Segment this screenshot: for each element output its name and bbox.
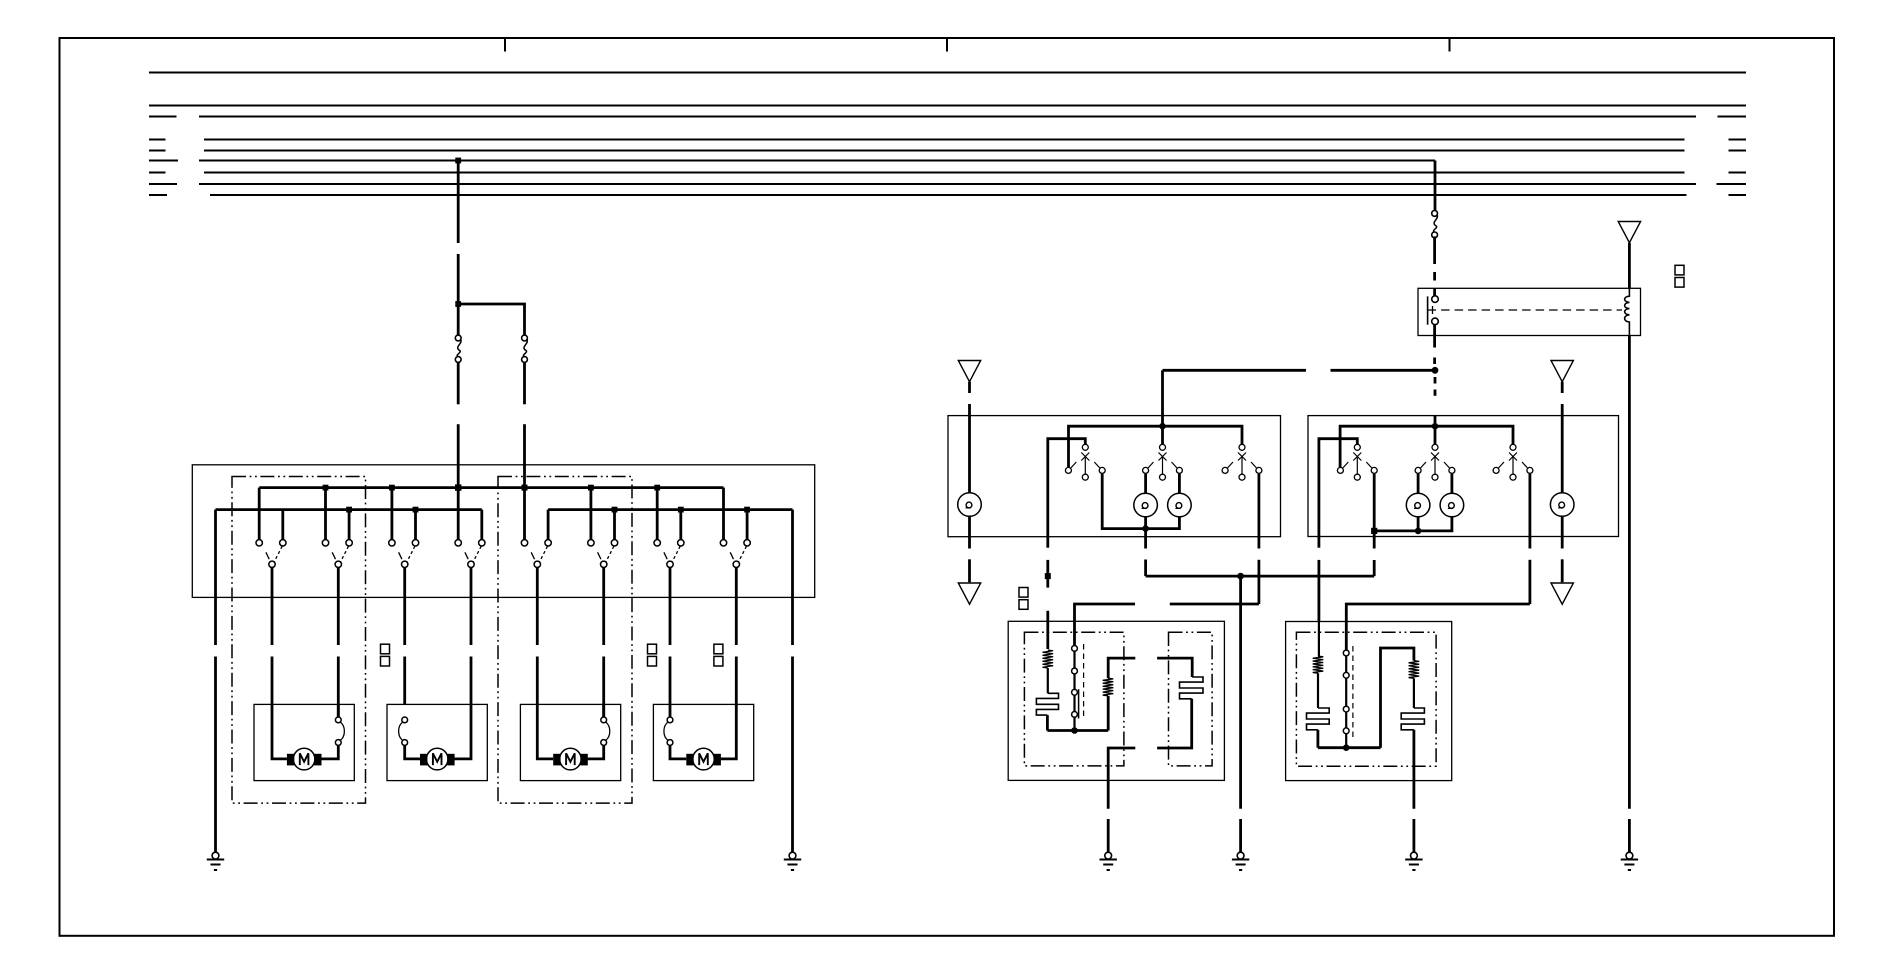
page tick mark x=947 (946, 38, 948, 52)
wire lower bus right end drop (791, 510, 794, 598)
actuator1 dashed box B (1169, 632, 1213, 766)
wire lock feed dashes (1434, 377, 1437, 423)
wire fuse F2 to switch bus (523, 362, 526, 487)
wire master switch upper bus (259, 486, 723, 489)
wire far-right ground run upper (791, 597, 794, 645)
wire motor 1 left lead (272, 704, 287, 759)
wire A2 to relay box (1628, 243, 1631, 289)
switch SR2 (1415, 444, 1455, 480)
wire ground drop x1240 (1239, 576, 1242, 852)
wire switch 6 to window motor (602, 568, 605, 646)
motor M3 (553, 748, 588, 770)
relay contact bar (1427, 296, 1429, 324)
wire switch 5 to window motor (536, 568, 539, 646)
wire bulb B5 top (1451, 474, 1454, 493)
wire switch 4 to window motor (470, 568, 473, 646)
window motor box 4 (653, 704, 753, 780)
wire drop to switch 2 right contact (348, 510, 351, 540)
node boxL rail junction (1142, 525, 1149, 532)
connector C5 squares (1675, 265, 1684, 287)
wire bus line 4 y=139.5 (149, 139, 1746, 141)
connector C1 squares (381, 644, 390, 666)
master switch assembly box (192, 465, 814, 598)
switch S1 rocker contacts (256, 540, 286, 568)
wire motor feed lower column 5 (536, 657, 539, 705)
wire bus line 8 y=184.0 (149, 183, 1746, 185)
node fuse feed junction (455, 301, 461, 307)
wire boxR sw3 output upper (1529, 474, 1532, 537)
node boxR top bus junction (1432, 423, 1439, 430)
door lock actuator box 2 (1286, 622, 1452, 781)
actuator1 pin dashed line (1083, 644, 1085, 719)
wire boxL rail exit lower (1144, 537, 1147, 576)
connector C3 squares (714, 644, 723, 666)
node boxR rail junction (1415, 528, 1422, 535)
wire drop to switch 6 left contact (590, 488, 593, 540)
switch S2 rocker contacts (322, 540, 352, 568)
wire bulb B6 column (1561, 416, 1564, 549)
node actuator2 rail junction (1343, 744, 1350, 751)
connector in-line motor 1 (335, 717, 344, 745)
ground G x=1413.9 (1405, 852, 1422, 870)
arrow feed A3 (1551, 361, 1573, 382)
bulb B1 (1134, 493, 1158, 517)
node L-feeder inline connector (1045, 573, 1051, 579)
wire bulb B3 column (968, 416, 971, 537)
wire drop to switch 2 left contact (324, 488, 327, 540)
wire bus line 3 y=116.5 (149, 116, 1746, 118)
wire drop to switch 1 right contact (281, 510, 284, 540)
resistor R2 (1103, 678, 1114, 696)
wire switch 3 to window motor (403, 568, 406, 646)
connector in-line motor 4 (664, 717, 673, 745)
wire motor 2 left lead (405, 745, 420, 759)
node lock feed junction (1432, 367, 1439, 374)
wire fuse F1 lead (457, 304, 460, 335)
arrow feed A2 (relay) (1618, 222, 1640, 243)
wire lock feed left drop (1161, 370, 1164, 426)
wire drop to switch 7 left contact (656, 488, 659, 540)
wire boxL top bus (1069, 426, 1243, 467)
node lower bus junction at switch 8 (744, 507, 750, 513)
resistor R3 (1313, 656, 1324, 673)
wire actuator2 ground lower (1413, 819, 1416, 852)
wire drop to switch 1 left contact (258, 488, 261, 540)
wire master switch lower bus right (548, 508, 792, 511)
wire bus line 5 y=150.5 (149, 150, 1746, 152)
wire boxL sw3 output lower (1170, 537, 1259, 604)
motor M2 (420, 748, 455, 770)
node boxR rail junction sq (1371, 528, 1377, 534)
node upper bus junction 3 (455, 485, 461, 491)
wire comb W2 top lead (1157, 658, 1192, 677)
lock switch assembly box L (948, 416, 1281, 537)
node upper bus junction 2 (389, 485, 395, 491)
wire boxR L-feeder (1319, 439, 1357, 537)
connector C2 squares (648, 644, 657, 666)
wire drop to switch 4 right contact (480, 510, 483, 540)
wire motor 4 right lead (721, 704, 737, 759)
ground G x=1108.2 (1100, 852, 1117, 870)
wire bulb B1 bottom (1144, 517, 1147, 529)
node boxL top bus junction (1159, 423, 1166, 430)
bulb B3 (958, 493, 982, 517)
wire motor feed lower column 6 (602, 657, 605, 718)
connector C4 squares (1019, 588, 1028, 610)
wire motor feed lower column 7 (669, 657, 672, 718)
dashed boundary box mid (rear left door) (498, 477, 632, 804)
wire B3 to arrow A4 (968, 537, 971, 583)
wire boxR bulb rail (1374, 517, 1452, 531)
switch SL3 (1222, 444, 1262, 480)
wire R4 to comb (1413, 678, 1415, 708)
window motor box 2 (387, 704, 487, 780)
ground G x=792.5 (784, 852, 801, 870)
node upper bus junction 4 (522, 485, 528, 491)
wire R2 bottom lead (1107, 696, 1110, 731)
wire drop to switch 5 left contact (523, 488, 526, 540)
wire drop to switch 6 right contact (613, 510, 616, 540)
node upper bus junction 6 (654, 485, 660, 491)
wire actuator2 rail (1318, 746, 1381, 749)
node lower bus junction at switch 7 (678, 507, 684, 513)
wire bulb B4 top (1417, 474, 1420, 493)
relay box (1418, 288, 1641, 335)
wire comb W2 out (1157, 699, 1192, 748)
wire crossover y576 (1146, 575, 1375, 578)
wire B6 to arrow A5 (1561, 559, 1564, 582)
wire actuator1 ground lower (1107, 819, 1110, 852)
node lower bus junction at switch 6 (612, 507, 618, 513)
wire drop to switch 7 right contact (679, 510, 682, 540)
actuator2 dashed box (1296, 632, 1436, 766)
arrow feed A1 (958, 361, 980, 382)
wire F3 to relay (1433, 236, 1436, 280)
wire boxR L-feeder lower (1318, 537, 1321, 622)
wire drop to switch 5 right contact (547, 510, 550, 540)
wire boxL L-feeder lower (1046, 537, 1049, 649)
connector in-line motor 2 (399, 717, 408, 745)
lock switch assembly box R (1308, 416, 1619, 537)
switch SR3 (1493, 444, 1533, 480)
wire master switch lower bus left (216, 508, 482, 511)
wire motor 3 right lead (588, 704, 604, 759)
position switch comb W2 (1180, 677, 1204, 699)
window motor box 1 (254, 704, 354, 780)
bulb B6 (1550, 493, 1574, 517)
actuator1 pin column (1072, 646, 1078, 731)
resistor R4 (1409, 661, 1420, 679)
wire boxR sw3 output lower (1346, 537, 1530, 651)
actuator1 pin bar (1078, 689, 1080, 718)
wire fuse feed branch (458, 304, 524, 335)
wire bus line 7 y=172.5 (149, 172, 1746, 174)
switch S6 rocker contacts (588, 540, 618, 568)
wire boxR top bus (1340, 426, 1513, 467)
relay actuating dashed link (1428, 306, 1622, 314)
wire bus line 2 y=105.5 (149, 105, 1746, 107)
node lower bus junction at switch 3 (413, 507, 419, 513)
door lock actuator box 1 (1008, 621, 1224, 780)
wire comb W3 out (1317, 730, 1320, 748)
position switch comb W4 (1401, 708, 1424, 730)
node actuator1 rail junction (1071, 727, 1078, 734)
wire boxL sw3 output upper (1258, 474, 1261, 537)
wire bus line 1 y=72.5 (149, 72, 1746, 74)
wire switch 7 to window motor (669, 568, 672, 646)
arrow out A5 (1551, 583, 1573, 604)
switch S4 rocker contacts (455, 540, 485, 568)
wire motor 2 right lead (454, 704, 471, 759)
wire far-right ground run lower (791, 657, 794, 853)
page tick mark x=505 (504, 38, 506, 52)
ground G x=215.5 (207, 852, 224, 870)
wire far-left ground run lower (214, 657, 217, 853)
switch SR1 (1337, 444, 1377, 480)
wire boxR sw1 output (1373, 474, 1376, 537)
wire motor 3 left lead (537, 704, 553, 759)
actuator1 dashed box A (1024, 632, 1124, 766)
wire fuse F1 to switch bus (457, 362, 460, 487)
wire drop to switch 3 left contact (390, 488, 393, 540)
wire far-left ground run upper (214, 597, 217, 645)
page tick mark x=1449.5 (1449, 38, 1451, 52)
wire switch 1 to window motor (271, 568, 274, 646)
wire bus line 9 y=195.0 (149, 194, 1746, 196)
ground G x=1629.4 (1621, 852, 1638, 870)
wire bulb B4 bottom (1417, 517, 1420, 531)
relay contact pins (1432, 288, 1439, 335)
actuator2 pin dashed line (1352, 646, 1354, 737)
wire boxL L-feeder (1048, 439, 1086, 537)
wire actuator1 ground link (1108, 748, 1135, 809)
wire R3 lead (1317, 622, 1320, 709)
wire R1 to comb (1047, 668, 1049, 693)
wire motor feed lower column 2 (337, 657, 340, 718)
switch S3 rocker contacts (389, 540, 419, 568)
wire boxL center drop (1161, 426, 1164, 444)
wire motor feed lower column 3 (403, 657, 406, 705)
bulb B2 (1168, 493, 1192, 517)
ground G x=1240.6 (1232, 852, 1249, 870)
wire motor feed lower column 8 (735, 657, 738, 705)
resistor R1 (1043, 650, 1054, 668)
wire relay coil to ground (1628, 336, 1631, 853)
wire motor 4 left lead (670, 745, 686, 759)
wire motor feed lower column 4 (470, 657, 473, 705)
wire drop to switch 3 right contact (414, 510, 417, 540)
node upper bus junction fuse1 (455, 484, 461, 490)
wire actuator1 rail (1047, 729, 1108, 732)
node junction on bus line 6 (455, 158, 461, 164)
wire relay to lock circuit (1433, 336, 1436, 365)
relay coil (1625, 288, 1630, 335)
bulb B4 (1406, 493, 1430, 517)
fuse F3 (1432, 211, 1438, 238)
motor M4 (686, 748, 721, 770)
node upper bus junction fuse2 (522, 485, 528, 491)
node upper bus junction 5 (588, 485, 594, 491)
node upper bus junction 1 (323, 485, 329, 491)
wire lock feed horizontal (1163, 369, 1436, 372)
switch SL1 (1065, 444, 1105, 480)
switch S8 rocker contacts (720, 540, 750, 568)
position switch comb W1 (1036, 693, 1058, 715)
wire fuse feed drop from bus (457, 161, 460, 305)
wire boxR sw1 output lower (1373, 537, 1376, 577)
arrow out A4 (958, 583, 980, 604)
fuse F2 (522, 335, 528, 362)
wire drop to switch 8 left contact (722, 488, 725, 540)
wire boxL bulb rail (1102, 474, 1179, 529)
switch S7 rocker contacts (654, 540, 684, 568)
position switch comb W3 (1307, 708, 1330, 730)
wire lock act1 feed (1075, 604, 1136, 646)
wire motor 1 right lead (321, 704, 338, 759)
wire bulb B2 top (1178, 474, 1181, 493)
wire comb W1 out (1046, 715, 1049, 730)
node lower bus junction at switch 2 (346, 507, 352, 513)
node crossover junction (1237, 573, 1244, 580)
wire A3 to box (1561, 382, 1564, 416)
wire boxR center drop (1434, 426, 1437, 444)
wire lower bus left end drop (214, 510, 217, 598)
wire actuator2 ground link (1413, 730, 1416, 809)
switch S5 rocker contacts (521, 540, 551, 568)
wire bulb B1 top (1144, 474, 1147, 493)
actuator2 pin column (1343, 650, 1349, 748)
wire R2 top lead (1108, 658, 1135, 678)
wire boxL rail exit (1144, 529, 1147, 537)
wire A1 to box (968, 382, 971, 416)
window motor box 3 (520, 704, 620, 780)
switch SL2 (1143, 444, 1183, 480)
wire switch 8 to window motor (735, 568, 738, 646)
connector in-line motor 3 (601, 717, 610, 745)
fuse F3 feed from bus (1434, 161, 1437, 211)
motor M1 (287, 748, 322, 770)
wire actuator2 riser (1381, 648, 1414, 748)
wire motor feed lower column 1 (271, 657, 274, 705)
bulb B5 (1440, 493, 1464, 517)
wire drop to switch 8 right contact (746, 510, 749, 540)
dashed boundary box left (driver door) (232, 477, 366, 804)
wire switch 2 to window motor (337, 568, 340, 646)
wire bus line 6 y=160.5 (149, 160, 1435, 162)
fuse F1 (455, 335, 461, 362)
wire drop to switch 4 left contact (457, 488, 460, 540)
